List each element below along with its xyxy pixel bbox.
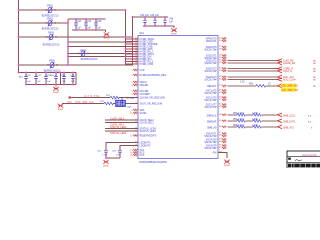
resistor R81 <box>256 85 266 88</box>
svg-text:SN0603DBQR1024PW: SN0603DBQR1024PW <box>139 160 167 164</box>
junction dots on bus A <box>18 9 20 11</box>
capacitor C52 leads <box>35 73 37 85</box>
right pin numbers <box>219 38 222 154</box>
svg-text:34: 34 <box>135 63 137 65</box>
ground stem group1 <box>105 30 107 32</box>
ground symbol group1 <box>104 32 110 36</box>
wire row y42 <box>68 41 133 43</box>
svg-text:BDFB52107Z10: BDFB52107Z10 <box>42 28 59 30</box>
wire XTAL row top <box>71 97 138 99</box>
svg-text:C41: C41 <box>77 21 82 23</box>
page refs group D <box>313 60 316 81</box>
pin CLKINBP <box>133 93 137 95</box>
wire group2 bottom rail <box>143 26 174 28</box>
svg-text:1uF: 1uF <box>87 28 92 30</box>
ground symbol bank <box>53 87 59 91</box>
svg-text:CLK0E_R#: CLK0E_R# <box>283 62 296 65</box>
right pin names <box>204 37 217 154</box>
capacitor C41 leads <box>75 19 77 30</box>
svg-text:CLKINA_FIN_RECLKIN: CLKINA_FIN_RECLKIN <box>140 96 166 99</box>
svg-text:FB61: FB61 <box>47 5 53 8</box>
wire vertical bus A <box>18 0 20 73</box>
svg-text:XTAL_REF_CLK: XTAL_REF_CLK <box>75 101 94 104</box>
capacitor C44 leads <box>144 17 146 26</box>
svg-text:STATUS_LED1: STATUS_LED1 <box>140 130 157 133</box>
wire bank bottom rail <box>26 84 76 86</box>
wire row y56.5 <box>68 56 133 58</box>
wire row y23 <box>19 22 69 24</box>
off-page arrow SMBCLK <box>278 113 283 117</box>
wire SMBDAT <box>228 120 278 122</box>
wire PW <box>218 153 227 159</box>
wire CLKIN_SEL0 <box>105 119 138 121</box>
svg-text:SMBDAT: SMBDAT <box>207 120 217 123</box>
svg-text:SSC0UT4#: SSC0UT4# <box>204 78 217 81</box>
svg-text:XOUT_FB_RECLKIN: XOUT_FB_RECLKIN <box>140 102 163 105</box>
svg-text:1uF: 1uF <box>27 81 31 83</box>
svg-text:FB62: FB62 <box>47 18 53 21</box>
junction dots on bus B <box>67 22 69 24</box>
pin stub rows <box>126 39 138 64</box>
svg-text:1uF: 1uF <box>37 81 41 83</box>
svg-text:U10: U10 <box>139 31 144 35</box>
svg-text:1.00K: 1.00K <box>252 113 258 115</box>
svg-text:C46: C46 <box>169 19 174 21</box>
svg-text:AGND: AGND <box>58 108 64 111</box>
capacitor C55 leads <box>63 73 65 85</box>
svg-text:SSC1UT7#: SSC1UT7# <box>204 106 217 109</box>
svg-text:CLKIN_SEL0: CLKIN_SEL0 <box>110 117 125 120</box>
svg-text:SMB_DAT1: SMB_DAT1 <box>283 120 296 123</box>
signature <box>295 160 302 161</box>
svg-text:ADJ: ADJ <box>19 75 23 78</box>
pin NC2 <box>133 152 137 154</box>
wire ADC_CLK <box>228 76 278 78</box>
wire CURE_N <box>228 68 278 70</box>
svg-text:AGND: AGND <box>104 37 110 40</box>
svg-text:AGND: AGND <box>103 164 109 167</box>
svg-text:STATUS_LED1: STATUS_LED1 <box>110 132 127 135</box>
resistor R53 <box>253 114 262 117</box>
svg-text:22pF: 22pF <box>127 106 133 108</box>
svg-text:R10: R10 <box>67 101 72 104</box>
svg-text:Asia Pacific: Asia Pacific <box>302 153 317 157</box>
wire vertical bus C <box>125 10 127 65</box>
svg-text:R81: R81 <box>249 84 254 86</box>
wire SMB_A0 <box>228 126 278 128</box>
ground symbol LDO <box>103 160 109 164</box>
wire STATUS_LED1 <box>105 130 138 132</box>
power tap dot <box>69 96 71 98</box>
svg-text:R56 1.00K: R56 1.00K <box>233 125 244 127</box>
left pin stubs section 1 <box>126 39 138 64</box>
ferrite bead FB4 on row 53.5 <box>78 50 98 62</box>
net name REF0UT highlighted <box>281 84 297 88</box>
resistor R54 <box>237 120 245 123</box>
capacitor C46 leads <box>164 17 166 26</box>
pin CLKINB <box>133 90 137 92</box>
svg-text:CLK_14M_C33: CLK_14M_C33 <box>282 89 299 92</box>
svg-text:OBGNP: OBGNP <box>140 84 149 87</box>
ferrite bead FB6 on row 65 <box>44 60 61 73</box>
svg-text:C43: C43 <box>97 21 102 23</box>
svg-text:1uF: 1uF <box>71 81 75 83</box>
svg-text:REF0UT: REF0UT <box>207 85 217 88</box>
net names group D <box>283 59 296 81</box>
svg-text:1uF: 1uF <box>62 81 66 83</box>
svg-text:SSC1UT5#: SSC1UT5# <box>204 92 217 95</box>
wire row y37 <box>19 36 134 38</box>
wire STATUS_LED0 <box>105 128 138 130</box>
svg-text:CLAT_N: CLAT_N <box>283 70 292 73</box>
capacitor C45 plates <box>153 20 157 22</box>
wire ADC_CLK# <box>228 79 278 81</box>
ferrite bead FB3 <box>43 32 60 47</box>
capacitor C41 plates <box>74 23 78 25</box>
wire group1 bottom rail <box>72 29 106 31</box>
wire bank box right edge <box>75 73 77 85</box>
wire group2 top rail <box>133 16 169 18</box>
svg-text:1uF: 1uF <box>97 28 102 30</box>
wire vertical bus D <box>132 17 134 65</box>
junction dots on bus D <box>132 16 134 18</box>
resistor R56 <box>237 126 245 129</box>
wire LDOBYP2 <box>120 146 138 149</box>
capacitor C62 <box>119 149 121 159</box>
svg-text:SMB_A0: SMB_A0 <box>207 126 217 129</box>
svg-text:0.1uF: 0.1uF <box>102 154 108 156</box>
capacitor C42 leads <box>85 19 87 30</box>
capacitor C51 leads <box>25 73 27 85</box>
svg-text:R52 1.00K: R52 1.00K <box>233 113 244 115</box>
svg-text:1.00K: 1.00K <box>252 119 258 121</box>
ground symbol group2 <box>171 28 177 32</box>
left pin names section 1 <box>140 38 158 66</box>
svg-text:SMB_A01: SMB_A01 <box>283 126 294 129</box>
wire LDOBYP1 <box>106 143 138 149</box>
svg-text:RESERVED/FS: RESERVED/FS <box>140 134 157 137</box>
svg-text:AGND: AGND <box>224 164 230 167</box>
pin DVDD <box>133 74 137 76</box>
svg-text:BDFB52107Z10: BDFB52107Z10 <box>81 59 98 61</box>
svg-text:1.00K: 1.00K <box>252 125 258 127</box>
capacitor C52 plates + label <box>34 77 38 79</box>
svg-text:STATUS_LED0: STATUS_LED0 <box>110 126 127 129</box>
ground stem bank <box>55 85 57 87</box>
ground symbol PW <box>224 160 230 164</box>
capacitor C51 plates + label <box>24 77 28 79</box>
capacitor C43 leads <box>95 19 97 30</box>
wire row y46.5 <box>68 46 133 48</box>
junction dots bank <box>25 72 27 74</box>
capacitor C53 plates + label <box>44 77 48 79</box>
capacitor C56 leads <box>72 73 74 85</box>
svg-text:SSC1UT6#: SSC1UT6# <box>204 99 217 102</box>
svg-text:HVDD_CHM: HVDD_CHM <box>140 63 154 66</box>
svg-text:FB63: FB63 <box>48 32 54 35</box>
junction dots group2 <box>144 16 146 18</box>
pin NC1 <box>133 149 137 151</box>
junction dots group1 <box>75 18 77 20</box>
svg-text:1uF: 1uF <box>77 28 82 30</box>
capacitor C46 plates <box>163 20 167 22</box>
crystal Y1 body <box>114 98 134 109</box>
capacitor C44 plates <box>143 20 147 22</box>
svg-text:CLK_14M_X33: CLK_14M_X33 <box>282 85 299 88</box>
capacitor C61 <box>105 149 107 159</box>
svg-text:SSC4UT9#: SSC4UT9# <box>204 147 217 150</box>
wire cap-group1 top rail <box>68 18 106 20</box>
wire XTAL row bottom <box>62 103 138 105</box>
capacitor C55 plates + label <box>62 77 66 79</box>
off-page arrow REF0UT <box>278 84 283 88</box>
wire REF0UT <box>228 85 278 87</box>
resistor R55 <box>253 120 262 123</box>
wire row y10 <box>19 9 126 11</box>
svg-text:SSC0UT2#: SSC0UT2# <box>204 62 217 65</box>
pin OBGNP <box>133 84 137 86</box>
pin CAP <box>133 69 137 71</box>
svg-text:1uF: 1uF <box>47 81 51 83</box>
off-page arrow SMBDAT <box>278 119 283 123</box>
resistor R22 <box>104 102 113 105</box>
svg-text:BDFB52107Z10: BDFB52107Z10 <box>43 44 60 46</box>
capacitor C45 leads <box>154 17 156 26</box>
svg-text:SGND: SGND <box>140 112 147 115</box>
wire CLKIN_SEL1 <box>105 122 138 124</box>
svg-text:14.3_M_XTAL: 14.3_M_XTAL <box>84 95 100 98</box>
wire bank box left edge <box>60 73 62 85</box>
approval mark <box>288 158 291 160</box>
ferrite bead FB2 <box>42 18 59 31</box>
wire SMBCLK <box>228 114 278 116</box>
capacitor C42 plates <box>84 23 88 25</box>
pin SGND <box>133 112 137 114</box>
svg-text:SSC0UT0#: SSC0UT0# <box>204 48 217 51</box>
svg-text:FB64: FB64 <box>80 50 86 53</box>
wire CLAT_N <box>228 70 278 72</box>
wire bank top rail <box>19 72 77 74</box>
pin SDATA <box>133 109 137 111</box>
bottom row text bar <box>288 164 320 168</box>
svg-text:SSC0UT3#: SSC0UT3# <box>204 70 217 73</box>
wire row y65 <box>19 64 134 66</box>
svg-text:LDOBYP2: LDOBYP2 <box>140 144 152 147</box>
svg-text:C42: C42 <box>87 21 92 23</box>
capacitor C43 plates <box>94 23 98 25</box>
svg-text:1uF: 1uF <box>169 21 174 23</box>
svg-text:1uF: 1uF <box>116 154 120 156</box>
svg-text:2.2K: 2.2K <box>240 81 245 83</box>
wire vertical bus B <box>67 19 69 65</box>
off-page arrow SMB_A0 <box>278 125 283 129</box>
svg-text:ADC_CLK#: ADC_CLK# <box>283 78 296 81</box>
ground symbol xtal <box>58 104 64 108</box>
capacitor C53 leads <box>45 73 47 85</box>
svg-text:AGND: AGND <box>53 91 59 94</box>
net name alias highlighted <box>281 88 297 92</box>
pin OBGN <box>133 81 137 83</box>
pin NC3 <box>133 154 137 156</box>
resistor R57 <box>253 126 262 129</box>
svg-text:X2 14M: X2 14M <box>127 98 135 100</box>
svg-text:SMB_CLK1: SMB_CLK1 <box>283 114 296 117</box>
right pin icons <box>222 38 226 149</box>
wire row y53.5 <box>68 53 133 55</box>
resistor R21 <box>110 96 119 99</box>
svg-text:CAP: CAP <box>140 69 145 72</box>
wire CLK0E_R# <box>228 62 278 64</box>
svg-text:R54 1.00K: R54 1.00K <box>233 119 244 121</box>
svg-text:CLKIN_SEL1: CLKIN_SEL1 <box>140 121 155 124</box>
title block frame <box>287 151 320 169</box>
wire LDO bottom rail <box>106 157 120 159</box>
left pin numbers section 1 <box>135 38 137 65</box>
capacitor C54 leads <box>55 73 57 85</box>
junction dots on bus C <box>125 9 127 11</box>
svg-text:SMBCLK: SMBCLK <box>207 114 217 117</box>
svg-text:NC3: NC3 <box>140 154 145 157</box>
capacitor C54 plates + label <box>54 77 58 79</box>
capacitor C56 plates + label <box>71 77 75 79</box>
svg-text:FB66: FB66 <box>49 60 55 63</box>
wire CLK0_R# <box>228 60 278 62</box>
resistor R52 <box>237 114 245 117</box>
IC U10 body <box>138 36 218 159</box>
off-page arrows group D <box>278 59 283 82</box>
pin RESERVED <box>133 135 137 137</box>
ferrite bead FB1 <box>42 5 59 18</box>
svg-text:OPA0UT1: OPA0UT1 <box>206 40 217 43</box>
svg-text:DVDD/LDOPWRIN_REG: DVDD/LDOPWRIN_REG <box>140 74 167 77</box>
